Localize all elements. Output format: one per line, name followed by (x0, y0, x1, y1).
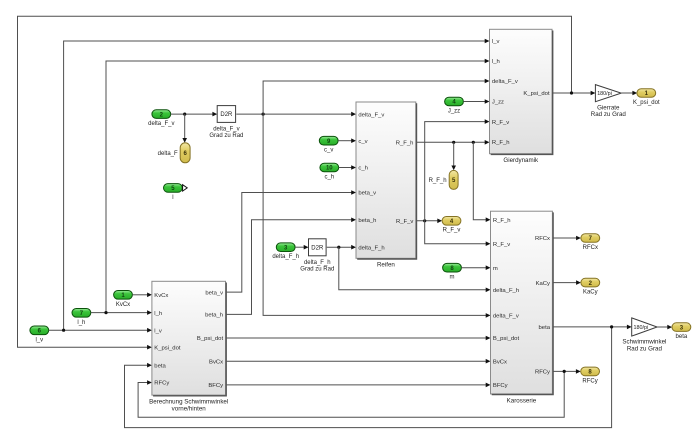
wire delta_F_h to Karosserie (339, 247, 491, 292)
wire D2R to Reifen delta_F_v (236, 112, 356, 117)
junction delta_F tap (183, 113, 186, 116)
svg-text:l_v: l_v (35, 337, 43, 343)
junction R_F_h to outport (452, 141, 455, 144)
svg-text:l: l (172, 195, 173, 201)
wire Reifen R_F_v to outport 4 (417, 219, 443, 224)
wire tap down to outport delta_F (182, 114, 187, 143)
junction R_F_v (423, 219, 426, 222)
wire R_F_v to Gierdynamik (425, 119, 490, 221)
svg-text:delta_F_v: delta_F_v (213, 127, 239, 133)
wire l_v feedback to Gierdynamik (64, 39, 490, 331)
junction delta_F_v branch (262, 113, 265, 116)
wire c_v to Reifen (338, 138, 356, 143)
svg-text:J_zz: J_zz (492, 100, 504, 106)
outport 7 RFCx (581, 234, 600, 251)
svg-text:K_psi_dot: K_psi_dot (154, 345, 181, 351)
svg-text:Karosserie: Karosserie (507, 397, 537, 404)
subsystem Berechnung Schwimmwinkel vorne/hinten (149, 281, 228, 412)
outport 4 R_F_v (442, 217, 461, 234)
junction beta feedback tap (610, 325, 613, 328)
svg-text:beta: beta (154, 363, 166, 369)
svg-text:Gierdynamik: Gierdynamik (503, 157, 539, 164)
svg-text:Rad zu Grad: Rad zu Grad (591, 111, 627, 118)
svg-text:Grad zu Rad: Grad zu Rad (300, 266, 334, 272)
svg-text:KaCy: KaCy (536, 281, 550, 287)
wire beta to gain (553, 325, 632, 330)
svg-text:D2R: D2R (220, 112, 233, 118)
svg-text:delta_F_v: delta_F_v (148, 121, 174, 127)
subsystem Gierdynamik (490, 29, 553, 164)
svg-text:m: m (450, 275, 455, 281)
junction K_psi_dot feedback tap (570, 91, 573, 94)
wire K_psi_dot feedback loop (18, 16, 572, 349)
junction RFCy feedback tap (563, 370, 566, 373)
wire RFCy to outport 8 (553, 369, 581, 374)
wire Reifen R_F_h to Gierdynamik (417, 140, 490, 145)
svg-text:BFCy: BFCy (493, 383, 508, 389)
svg-text:c_v: c_v (324, 148, 333, 154)
svg-text:R_F_v: R_F_v (396, 219, 413, 225)
wire B_psi_dot Berechnung to Karosserie (226, 336, 490, 341)
wire gain to outport 1 (621, 91, 637, 96)
svg-text:l_v: l_v (492, 39, 500, 45)
svg-text:c_h: c_h (358, 166, 368, 172)
svg-text:RFCy: RFCy (154, 381, 169, 387)
svg-text:Rad zu Grad: Rad zu Grad (627, 345, 663, 352)
inport 1 KvCx (114, 291, 133, 308)
svg-text:K_psi_dot: K_psi_dot (523, 91, 550, 97)
wire delta_F_h to D2R (295, 245, 308, 250)
wire J_zz to Gierdynamik (463, 99, 489, 104)
svg-text:R_F_h: R_F_h (396, 141, 414, 147)
svg-text:K_psi_dot: K_psi_dot (633, 100, 660, 106)
svg-text:R_F_h: R_F_h (429, 178, 447, 184)
inport 10 c_h (320, 163, 339, 180)
wire R_F_h down to outport 5 (451, 142, 456, 170)
svg-text:J_zz: J_zz (448, 109, 460, 115)
outport 3 beta (672, 323, 691, 340)
wire KaCy to outport 2 (553, 280, 581, 285)
svg-text:RFCx: RFCx (583, 245, 598, 251)
wire RFCx to outport 7 (553, 236, 581, 241)
svg-text:R_F_h: R_F_h (493, 218, 511, 224)
svg-text:c_h: c_h (324, 175, 334, 181)
svg-text:KvCx: KvCx (154, 293, 168, 299)
svg-text:BvCx: BvCx (209, 359, 223, 365)
junction delta_F_h branch (337, 246, 340, 249)
outport 2 KaCy (581, 278, 600, 295)
gain D2R delta_F_v Grad zu Rad (209, 106, 243, 139)
svg-text:Grad zu Rad: Grad zu Rad (209, 133, 243, 139)
wire KvCx to Berechnung (132, 293, 152, 298)
svg-text:R_F_v: R_F_v (443, 228, 461, 234)
svg-text:delta_F_h: delta_F_h (304, 260, 331, 266)
gain 180/pi Gierrate Rad zu Grad (591, 85, 627, 118)
subsystem Reifen (356, 102, 417, 269)
svg-text:beta_h: beta_h (205, 313, 223, 319)
gain D2R delta_F_h Grad zu Rad (300, 239, 334, 273)
wire m to Karosserie (461, 265, 490, 270)
wire BvCx Berechnung to Karosserie (226, 359, 490, 364)
outport 1 K_psi_dot (633, 89, 660, 106)
svg-text:RFCy: RFCy (535, 370, 550, 376)
junction l_h (104, 311, 107, 314)
inport 7 l_h (72, 309, 91, 326)
inport 2 delta_F_v (148, 110, 174, 127)
gain 180/pi Schwimmwinkel Rad zu Grad (622, 318, 666, 352)
svg-text:beta_v: beta_v (205, 290, 223, 296)
svg-text:beta_h: beta_h (358, 218, 376, 224)
outport 8 RFCy (581, 367, 600, 384)
inport 4 J_zz (445, 97, 464, 114)
wire R_F_h to Karosserie (473, 142, 490, 222)
wire l_h feedback to Gierdynamik (106, 59, 490, 313)
svg-text:BvCx: BvCx (493, 359, 507, 365)
wire l_h to Berechnung (91, 310, 152, 315)
wire D2R to Reifen delta_F_h (327, 245, 356, 250)
svg-text:delta_F_v: delta_F_v (493, 314, 519, 320)
wire delta_F_v to Gierdynamik (263, 79, 489, 114)
svg-text:m: m (493, 266, 498, 272)
svg-text:RFCy: RFCy (582, 378, 597, 384)
svg-text:vorne/hinten: vorne/hinten (172, 405, 207, 412)
svg-text:delta_F_v: delta_F_v (358, 112, 384, 118)
subsystem Karosserie (491, 211, 554, 404)
svg-text:180/pi: 180/pi (597, 91, 612, 97)
svg-text:B_psi_dot: B_psi_dot (197, 336, 224, 342)
outport 6 delta_F (158, 143, 190, 163)
svg-text:R_F_h: R_F_h (492, 140, 510, 146)
wire delta_F_v to Karosserie (263, 114, 490, 318)
outport 5 R_F_h (429, 170, 459, 189)
wire c_h to Reifen (339, 165, 356, 170)
svg-text:KvCx: KvCx (116, 302, 130, 308)
svg-text:10: 10 (326, 166, 333, 172)
wire gain to outport 3 (657, 325, 672, 330)
svg-text:B_psi_dot: B_psi_dot (493, 336, 520, 342)
wire R_F_v to Karosserie (425, 221, 491, 246)
inport 5 l (unconnected) (164, 184, 183, 201)
wire beta_v Berechnung to Reifen (226, 190, 356, 292)
svg-text:beta_v: beta_v (358, 191, 376, 197)
svg-text:BFCy: BFCy (208, 383, 223, 389)
svg-text:KaCy: KaCy (583, 290, 598, 296)
junction R_F_h to Karosserie (472, 141, 475, 144)
wire beta feedback loop (125, 327, 612, 428)
svg-text:delta_F_h: delta_F_h (272, 254, 299, 260)
svg-text:l_v: l_v (154, 328, 162, 334)
inport 3 delta_F_h (272, 243, 299, 260)
wire BFCy Berechnung to Karosserie (226, 383, 490, 388)
wire beta_h Berechnung to Reifen (226, 218, 356, 315)
svg-text:delta_F_v: delta_F_v (492, 79, 518, 85)
wire K_psi_dot to gain (553, 91, 596, 96)
inport 8 m (443, 263, 462, 280)
svg-text:R_F_v: R_F_v (493, 242, 510, 248)
inport 9 c_v (319, 136, 338, 153)
wire delta_F_v to D2R (171, 112, 218, 117)
svg-text:c_v: c_v (358, 139, 367, 145)
svg-text:l_h: l_h (492, 59, 500, 65)
svg-text:beta: beta (676, 334, 688, 340)
wire RFCy feedback loop (138, 371, 564, 417)
svg-text:l_h: l_h (77, 320, 85, 326)
junction l_v (62, 329, 65, 332)
wire l_v to Berechnung (49, 328, 152, 333)
inport 6 l_v (30, 326, 49, 343)
svg-text:delta_F: delta_F (158, 151, 178, 157)
svg-text:delta_F_h: delta_F_h (358, 245, 384, 251)
svg-text:delta_F_h: delta_F_h (493, 288, 519, 294)
svg-text:180/pi: 180/pi (634, 325, 649, 331)
svg-text:D2R: D2R (311, 246, 324, 252)
svg-text:Reifen: Reifen (377, 262, 395, 269)
svg-text:beta: beta (539, 325, 551, 331)
svg-text:R_F_v: R_F_v (492, 120, 509, 126)
svg-text:RFCx: RFCx (535, 236, 550, 242)
svg-text:l_h: l_h (154, 311, 162, 317)
